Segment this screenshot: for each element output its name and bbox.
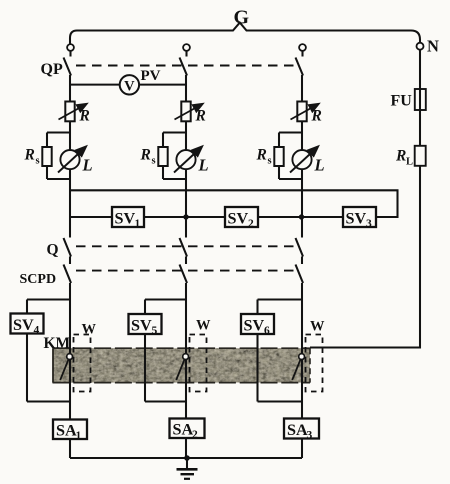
svg-text:L: L <box>198 156 209 175</box>
svg-text:L: L <box>314 156 325 175</box>
svg-text:R: R <box>195 108 206 125</box>
svg-text:W: W <box>82 322 97 338</box>
svg-text:1: 1 <box>135 218 141 230</box>
svg-text:s: s <box>268 156 272 167</box>
svg-text:s: s <box>36 156 40 167</box>
svg-text:KM: KM <box>44 335 71 352</box>
svg-text:R: R <box>311 108 322 125</box>
svg-text:N: N <box>427 37 439 56</box>
svg-text:1: 1 <box>76 430 82 442</box>
svg-text:6: 6 <box>264 325 270 337</box>
svg-text:3: 3 <box>307 430 313 442</box>
svg-text:QP: QP <box>41 61 63 78</box>
svg-text:SCPD: SCPD <box>20 272 57 287</box>
svg-text:SV: SV <box>346 210 367 228</box>
svg-text:G: G <box>234 7 250 29</box>
svg-text:L: L <box>82 156 93 175</box>
svg-text:V: V <box>124 78 135 94</box>
svg-text:s: s <box>152 156 156 167</box>
svg-text:W: W <box>310 319 325 335</box>
svg-text:SV: SV <box>228 210 249 228</box>
svg-text:L: L <box>406 157 413 168</box>
svg-text:R: R <box>24 147 35 164</box>
svg-text:R: R <box>256 147 267 164</box>
svg-text:3: 3 <box>366 218 372 230</box>
svg-text:R: R <box>140 147 151 164</box>
svg-text:SA: SA <box>287 421 308 439</box>
svg-text:R: R <box>395 148 406 165</box>
svg-text:2: 2 <box>248 218 254 230</box>
svg-text:SV: SV <box>13 316 34 334</box>
svg-text:W: W <box>196 318 211 334</box>
svg-text:PV: PV <box>141 68 161 84</box>
svg-text:4: 4 <box>34 325 40 337</box>
svg-text:Q: Q <box>47 242 59 259</box>
svg-text:R: R <box>79 108 90 125</box>
svg-text:5: 5 <box>152 325 158 337</box>
svg-text:SA: SA <box>173 421 194 439</box>
svg-text:SV: SV <box>244 317 265 335</box>
svg-text:2: 2 <box>192 429 198 441</box>
svg-text:SA: SA <box>56 422 77 440</box>
svg-text:SV: SV <box>131 317 152 335</box>
svg-text:FU: FU <box>391 93 413 110</box>
svg-text:SV: SV <box>115 210 136 228</box>
